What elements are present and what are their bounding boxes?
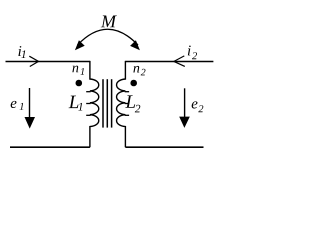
wire: top-left horizontal	[6, 61, 90, 63]
label n1 'n'	[72, 66, 78, 73]
core line 3	[111, 79, 113, 127]
label i1 '1'	[21, 50, 25, 58]
wire: bottom-left horizontal	[10, 146, 90, 148]
label L1 'L'	[69, 96, 79, 108]
label L2 'L'	[125, 95, 135, 107]
label e2 '2'	[198, 105, 203, 112]
wire: top-right horizontal	[125, 61, 213, 63]
label n2 '2'	[141, 69, 146, 76]
label e1 '1'	[20, 103, 24, 110]
L1 loop cusp tick 1	[86, 91, 90, 93]
L2 loop cusp tick 1	[125, 91, 129, 93]
current arrow i2 (open chevron)	[174, 56, 185, 67]
inductor L1 (left coil with stubs)	[90, 61, 99, 147]
label n1 '1'	[80, 68, 84, 75]
M arc left arrowhead	[75, 40, 85, 50]
polarity dot n2	[130, 80, 137, 87]
polarity dot n1	[76, 80, 83, 87]
label L1 '1'	[78, 103, 82, 111]
label i2 '2'	[192, 52, 197, 59]
L1 loop cusp tick 2	[86, 103, 90, 105]
voltage arrow e2 head	[179, 117, 190, 128]
label e1 'e'	[11, 101, 17, 108]
core line 1	[102, 79, 104, 127]
label L2 '2'	[135, 105, 140, 113]
M arc right arrowhead	[130, 40, 140, 50]
label e2 'e'	[192, 101, 198, 108]
voltage arrow e1 head	[25, 117, 36, 129]
voltage arrow e1 shaft	[29, 88, 31, 118]
voltage arrow e2 shaft	[184, 88, 186, 117]
L1 loop cusp tick 3	[86, 114, 90, 116]
current arrow i1 (open chevron)	[29, 56, 38, 66]
L2 loop cusp tick 3	[125, 114, 129, 116]
inductor L2 (right coil with stubs)	[117, 61, 126, 147]
L2 loop cusp tick 2	[125, 103, 129, 105]
label M	[101, 16, 117, 28]
label i2 'i'	[188, 45, 191, 55]
mutual coupling arc M	[78, 29, 139, 45]
label i1 'i'	[18, 46, 21, 56]
label n2 'n'	[133, 66, 139, 73]
wire: bottom-right horizontal	[125, 146, 203, 148]
core line 2	[106, 79, 108, 127]
